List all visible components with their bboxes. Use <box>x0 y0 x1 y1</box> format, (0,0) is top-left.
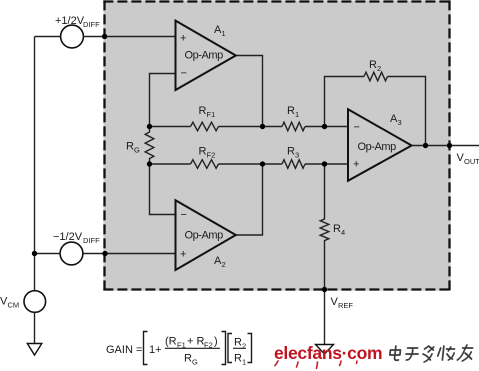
svg-text:+: + <box>353 159 359 171</box>
resistor RF2 <box>191 160 219 169</box>
node A2 input at box edge <box>102 251 107 256</box>
resistor R4 vertical <box>320 164 329 290</box>
node A1 input at box edge <box>102 34 107 39</box>
node R4 top / A3 + <box>322 161 327 166</box>
svg-text:): ) <box>214 336 218 348</box>
wire: row2 RF2/R3 <box>150 163 349 165</box>
node RG bottom <box>147 161 152 166</box>
svg-text:R: R <box>287 105 295 117</box>
resistor R2 <box>364 72 387 81</box>
svg-text:CM: CM <box>8 301 20 310</box>
svg-text:1: 1 <box>295 110 299 119</box>
svg-text:R: R <box>333 223 341 235</box>
node rail junction <box>32 251 37 256</box>
svg-text:G: G <box>192 358 198 367</box>
svg-text:3: 3 <box>398 118 402 127</box>
svg-text:Op-Amp: Op-Amp <box>185 49 224 61</box>
svg-text:2: 2 <box>377 64 381 73</box>
node VREF at box edge <box>322 287 327 292</box>
svg-text:Op-Amp: Op-Amp <box>185 229 224 241</box>
label A3 <box>390 113 402 127</box>
ground (VREF) <box>316 345 334 355</box>
svg-text:R: R <box>199 146 207 158</box>
label VOUT <box>457 152 479 166</box>
svg-text:GAIN =: GAIN = <box>106 344 142 356</box>
node A1 out / row1 <box>260 124 265 129</box>
label A1 <box>214 24 226 38</box>
svg-text:R: R <box>234 353 242 365</box>
label A2 <box>214 255 226 269</box>
watermark chinese 电子发烧友 <box>389 345 473 362</box>
label VREF <box>331 296 354 310</box>
wire: A2 output to row2 <box>236 164 263 235</box>
source VCM <box>24 291 46 313</box>
brackets <box>144 332 148 365</box>
svg-text:1+: 1+ <box>149 344 162 356</box>
svg-text:elecfans·com: elecfans·com <box>274 343 382 363</box>
wire: row1 RF1/R1 <box>150 126 349 128</box>
GAIN formula <box>106 332 252 367</box>
svg-text:−: − <box>181 68 187 80</box>
source +1/2VDIFF <box>61 25 84 48</box>
svg-text:+1/2V: +1/2V <box>55 15 85 27</box>
svg-text:DIFF: DIFF <box>83 236 100 245</box>
label R2 <box>369 59 381 73</box>
svg-text:R: R <box>184 353 192 365</box>
svg-text:(R: (R <box>165 336 177 348</box>
svg-text:4: 4 <box>341 228 345 237</box>
label RF2 <box>199 146 216 160</box>
svg-text:−1/2V: −1/2V <box>53 231 83 243</box>
svg-text:Op-Amp: Op-Amp <box>358 141 397 153</box>
op-amp A1 <box>176 21 236 90</box>
svg-text:DIFF: DIFF <box>83 20 100 29</box>
op-amp A3 <box>348 109 412 181</box>
svg-text:R: R <box>234 337 242 349</box>
wire: top source to box <box>35 36 62 38</box>
svg-text:1: 1 <box>242 358 246 367</box>
ground (VCM) <box>27 344 42 356</box>
svg-text:REF: REF <box>338 301 353 310</box>
svg-text:R: R <box>287 146 295 158</box>
svg-text:F2: F2 <box>207 151 216 160</box>
svg-text:−: − <box>354 122 360 134</box>
wire: left rail <box>34 37 36 292</box>
resistor R3 <box>282 160 305 169</box>
node R2 left / A3 - <box>322 124 327 129</box>
source -1/2VDIFF <box>60 242 83 265</box>
svg-text:1: 1 <box>222 29 226 38</box>
wire: A1 output to row1 <box>236 56 263 127</box>
wire: VCM to ground <box>34 312 36 344</box>
svg-text:G: G <box>134 146 140 155</box>
wire: R2 feedback loop <box>325 77 426 146</box>
label -1/2VDIFF <box>53 231 100 245</box>
svg-text:OUT: OUT <box>464 157 479 166</box>
svg-text:R: R <box>369 59 377 71</box>
label R4 <box>333 223 345 237</box>
svg-text:+: + <box>180 249 186 261</box>
label VCM <box>0 296 19 310</box>
resistor RG vertical <box>145 127 154 165</box>
svg-text:R: R <box>126 141 134 153</box>
svg-text:−: − <box>181 209 187 221</box>
label RF1 <box>199 105 216 119</box>
label RG <box>126 141 140 155</box>
dashed amplifier box <box>103 0 450 290</box>
wire: A1 - input feedback <box>150 74 177 127</box>
svg-text:R: R <box>199 105 207 117</box>
wire: A2 + input from source <box>83 253 177 255</box>
node A3 out / R2 right <box>423 143 428 148</box>
wire: rail to VCM <box>35 253 61 255</box>
wire: source to A1 + input <box>83 36 176 38</box>
node A2 out / row2 <box>260 161 265 166</box>
svg-text:+: + <box>180 33 186 45</box>
label R1 <box>287 105 299 119</box>
op-amp A2 <box>176 200 236 270</box>
wire: A3 output to VOUT <box>411 145 479 147</box>
watermark ink drips <box>275 361 357 369</box>
svg-text:+ R: + R <box>187 336 204 348</box>
wire: RG bottom to A2 - input <box>150 164 177 215</box>
svg-text:3: 3 <box>295 151 299 160</box>
label +1/2VDIFF <box>55 15 100 29</box>
resistor R1 <box>282 122 305 131</box>
resistor RF1 <box>191 122 219 131</box>
label R3 <box>287 146 299 160</box>
svg-text:2: 2 <box>242 342 246 351</box>
node RG top <box>147 124 152 129</box>
wire: VREF down <box>324 290 326 345</box>
svg-text:2: 2 <box>222 260 226 269</box>
node VOUT at box edge <box>447 143 452 148</box>
svg-text:F1: F1 <box>207 110 216 119</box>
